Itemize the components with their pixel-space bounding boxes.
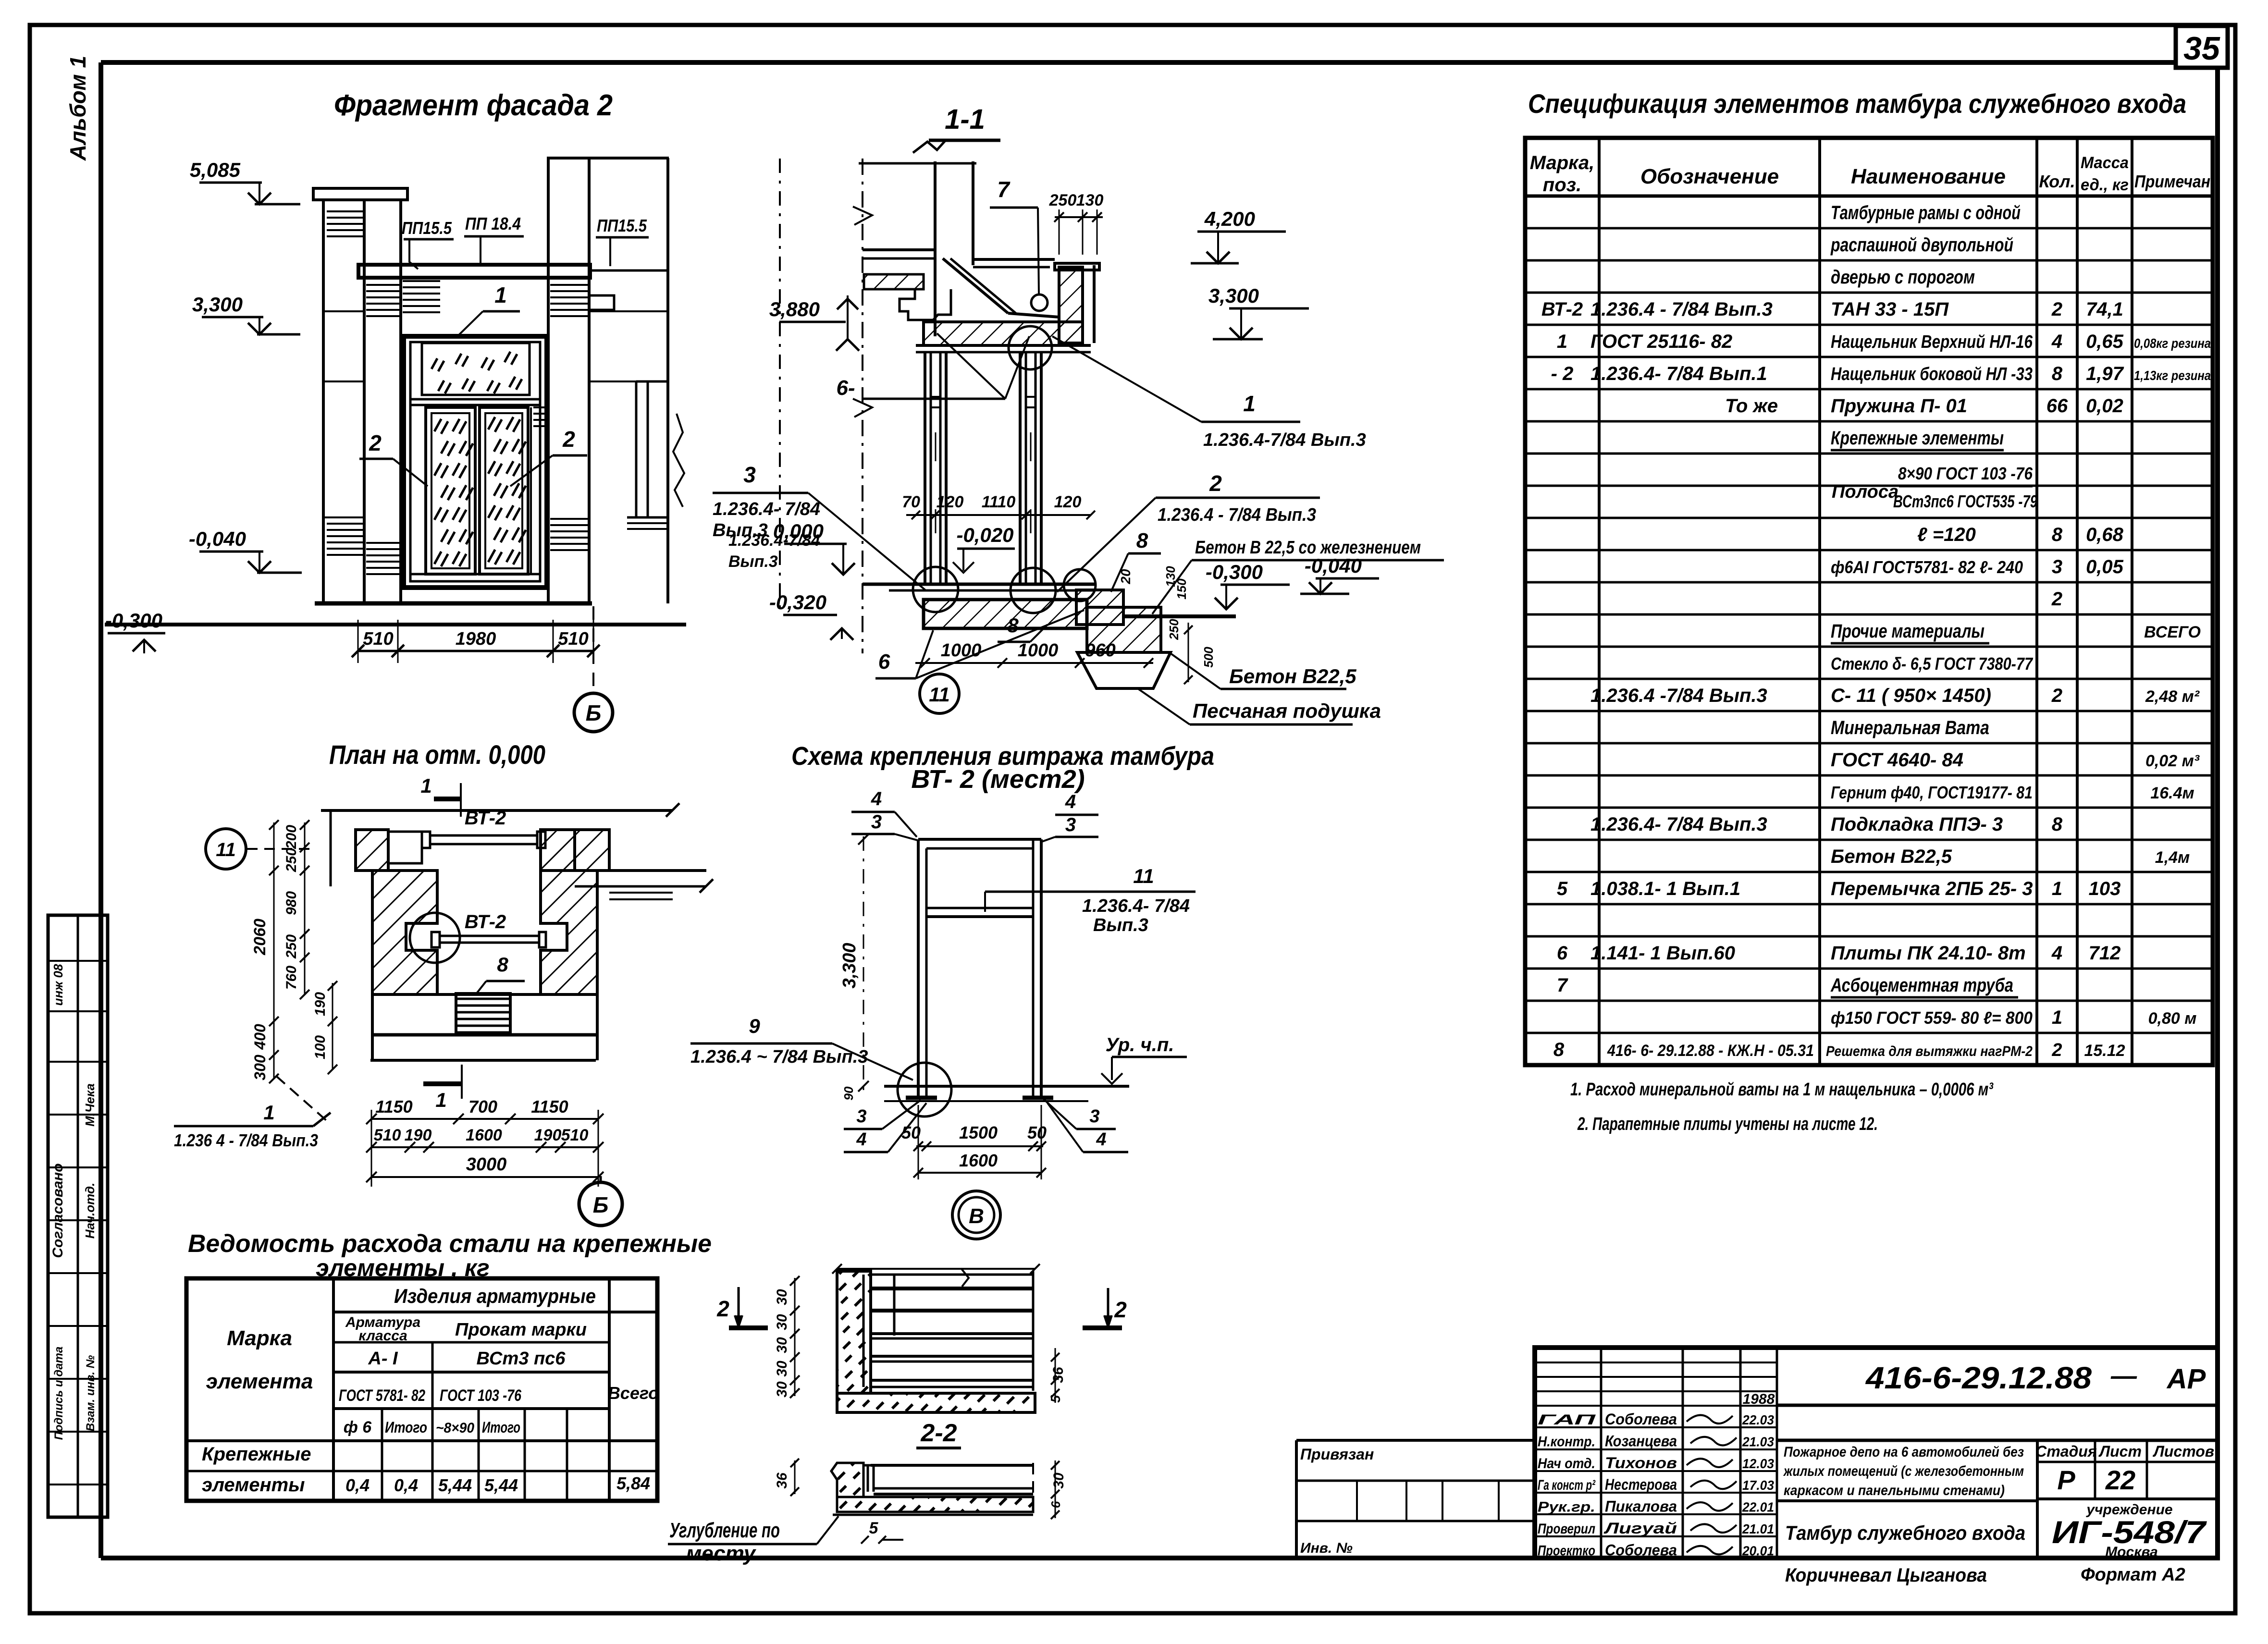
svg-text:8: 8 bbox=[497, 953, 508, 976]
svg-text:дверью с порогом: дверью с порогом bbox=[1831, 267, 1975, 288]
vitrage detail circle В bbox=[952, 1191, 1000, 1239]
svg-text:30: 30 bbox=[774, 1337, 790, 1353]
svg-text:Соболева: Соболева bbox=[1605, 1411, 1677, 1428]
plan title bbox=[329, 739, 545, 770]
level mark -0,300 bbox=[1206, 561, 1290, 609]
elevation mark 5,085 bbox=[190, 159, 300, 204]
svg-text:960: 960 bbox=[1085, 640, 1115, 661]
svg-text:3,880: 3,880 bbox=[769, 298, 820, 320]
svg-text:-0,020: -0,020 bbox=[956, 524, 1013, 546]
svg-text:4: 4 bbox=[1065, 791, 1076, 812]
svg-text:Масса: Масса bbox=[2081, 154, 2129, 172]
svg-text:- 2: - 2 bbox=[1551, 363, 1574, 384]
svg-text:30: 30 bbox=[774, 1381, 790, 1398]
section dimensions bbox=[902, 493, 1216, 684]
svg-text:Ведомость расхода стали на кре: Ведомость расхода стали на крепежные bbox=[188, 1230, 712, 1258]
facade dimension chain bbox=[352, 620, 600, 663]
svg-text:Нач.отд.: Нач.отд. bbox=[83, 1183, 97, 1239]
svg-text:1.236 4 - 7/84 Вып.3: 1.236 4 - 7/84 Вып.3 bbox=[174, 1130, 318, 1150]
svg-text:Листов: Листов bbox=[2153, 1443, 2214, 1460]
svg-text:Бетон В 22,5 со железнением: Бетон В 22,5 со железнением bbox=[1195, 538, 1421, 558]
section 1-1 title bbox=[929, 104, 1000, 140]
svg-text:30: 30 bbox=[774, 1314, 790, 1330]
svg-text:Вып.3: Вып.3 bbox=[713, 520, 768, 540]
svg-text:Альбом 1: Альбом 1 bbox=[65, 56, 90, 161]
spec table grid bbox=[1525, 138, 2213, 1065]
svg-text:8: 8 bbox=[2052, 814, 2063, 835]
svg-text:5,085: 5,085 bbox=[190, 159, 241, 181]
svg-text:500: 500 bbox=[1201, 647, 1216, 668]
svg-text:1: 1 bbox=[2052, 878, 2062, 899]
plan bottom dimensions bbox=[366, 1097, 604, 1187]
svg-text:ГОСТ 103 -76: ГОСТ 103 -76 bbox=[440, 1386, 522, 1405]
svg-text:ГОСТ 5781- 82: ГОСТ 5781- 82 bbox=[339, 1386, 425, 1405]
svg-text:0,80 м: 0,80 м bbox=[2148, 1009, 2197, 1028]
svg-text:Подпись и дата: Подпись и дата bbox=[52, 1347, 65, 1440]
svg-text:Взам. инв. №: Взам. инв. № bbox=[84, 1355, 97, 1431]
plan walls bbox=[321, 803, 713, 1060]
svg-text:4: 4 bbox=[871, 788, 882, 810]
detail lower dims bbox=[774, 1459, 1067, 1544]
svg-text:элемента: элемента bbox=[206, 1370, 313, 1393]
svg-text:1-1: 1-1 bbox=[945, 104, 985, 135]
svg-text:1: 1 bbox=[420, 774, 431, 797]
svg-text:ф 6: ф 6 bbox=[344, 1418, 372, 1436]
facade axis mark Б bbox=[574, 606, 613, 732]
svg-text:2: 2 bbox=[2051, 299, 2062, 320]
svg-text:0,68: 0,68 bbox=[2086, 524, 2124, 545]
svg-text:Бетон В22,5: Бетон В22,5 bbox=[1229, 665, 1356, 687]
svg-text:3: 3 bbox=[1089, 1106, 1099, 1127]
svg-text:Козанцева: Козанцева bbox=[1605, 1432, 1677, 1449]
svg-text:1000: 1000 bbox=[1018, 640, 1059, 661]
svg-text:2: 2 bbox=[2051, 685, 2062, 706]
svg-text:ПП15.5: ПП15.5 bbox=[402, 218, 452, 238]
svg-text:3: 3 bbox=[856, 1106, 866, 1127]
svg-text:8: 8 bbox=[1553, 1039, 1565, 1060]
svg-text:250: 250 bbox=[283, 848, 299, 872]
svg-text:2. Парапетные плиты учтены: 2. Парапетные плиты учтены на листе 12. bbox=[1577, 1114, 1878, 1134]
steel table title bbox=[188, 1230, 712, 1281]
svg-text:ВТ-2: ВТ-2 bbox=[1541, 299, 1583, 320]
section marks 2 bbox=[716, 1287, 1127, 1328]
detail 2-2 label bbox=[916, 1419, 961, 1448]
svg-text:8: 8 bbox=[2052, 363, 2063, 384]
svg-text:2: 2 bbox=[562, 427, 575, 452]
svg-text:5: 5 bbox=[1557, 878, 1568, 899]
title block signatures bbox=[1538, 1361, 2206, 1558]
svg-text:Б: Б bbox=[586, 700, 602, 725]
svg-text:190: 190 bbox=[534, 1126, 562, 1144]
svg-text:Пружина П- 01: Пружина П- 01 bbox=[1831, 395, 1967, 417]
plan axis circle Б bbox=[579, 1176, 622, 1226]
svg-text:0,65: 0,65 bbox=[2086, 331, 2124, 352]
elevation mark 3,300 bbox=[192, 293, 300, 334]
svg-text:То же: То же bbox=[1725, 395, 1778, 417]
svg-text:—: — bbox=[2110, 1362, 2137, 1390]
svg-text:3,300: 3,300 bbox=[192, 293, 243, 316]
level mark 3,300 right bbox=[1208, 284, 1309, 339]
vitrage frame BT-2 bbox=[884, 839, 1129, 1101]
svg-text:1150: 1150 bbox=[375, 1097, 412, 1116]
level mark 3,880 bbox=[769, 295, 859, 351]
svg-text:Плиты ПК 24.10- 8т: Плиты ПК 24.10- 8т bbox=[1831, 943, 2026, 964]
svg-text:М.Чека: М.Чека bbox=[83, 1083, 97, 1127]
svg-text:9: 9 bbox=[749, 1015, 760, 1037]
svg-text:8: 8 bbox=[2052, 524, 2063, 545]
svg-text:250: 250 bbox=[1167, 619, 1181, 640]
svg-text:Асбоцементная труба: Асбоцементная труба bbox=[1830, 975, 2013, 996]
svg-text:ГОСТ 25116- 82: ГОСТ 25116- 82 bbox=[1590, 331, 1732, 352]
svg-text:120: 120 bbox=[1054, 493, 1082, 511]
svg-text:ВТ- 2 (мест2): ВТ- 2 (мест2) bbox=[911, 765, 1085, 794]
svg-text:1500: 1500 bbox=[959, 1123, 998, 1142]
svg-text:Б: Б bbox=[593, 1192, 609, 1217]
svg-text:Нащельник Верхний НЛ-16: Нащельник Верхний НЛ-16 bbox=[1831, 332, 2033, 352]
svg-text:1: 1 bbox=[2052, 1007, 2062, 1028]
svg-text:-0,040: -0,040 bbox=[1305, 554, 1362, 577]
svg-text:Итого: Итого bbox=[482, 1419, 520, 1436]
svg-text:6-: 6- bbox=[836, 376, 855, 400]
level mark -0,320 bbox=[769, 591, 853, 640]
svg-text:Изделия арматурные: Изделия арматурные bbox=[394, 1285, 596, 1307]
svg-text:1.236.4 -7/84 Вып.3: 1.236.4 -7/84 Вып.3 bbox=[1590, 685, 1767, 706]
section wall and canopy bbox=[853, 140, 1099, 653]
svg-text:74,1: 74,1 bbox=[2086, 299, 2123, 320]
svg-text:Всего: Всего bbox=[608, 1383, 659, 1403]
svg-text:АР: АР bbox=[2166, 1363, 2206, 1395]
svg-text:1110: 1110 bbox=[982, 493, 1016, 511]
svg-text:ℓ =120: ℓ =120 bbox=[1917, 524, 1976, 545]
elevation mark -0,040 bbox=[189, 528, 302, 573]
svg-text:21.03: 21.03 bbox=[1742, 1434, 1774, 1449]
glass hatching bbox=[431, 352, 526, 566]
svg-text:Марка: Марка bbox=[227, 1326, 292, 1350]
svg-text:Гернит ф40, ГОСТ19177- 81: Гернит ф40, ГОСТ19177- 81 bbox=[1831, 783, 2033, 802]
svg-text:8: 8 bbox=[1007, 614, 1019, 637]
svg-text:2: 2 bbox=[1209, 471, 1222, 496]
svg-text:Тамбурные рамы с одной: Тамбурные рамы с одной bbox=[1831, 202, 2021, 223]
svg-text:7: 7 bbox=[1557, 975, 1568, 996]
tambour frame jambs bbox=[925, 352, 1041, 584]
title block left strip bbox=[1296, 1440, 1535, 1558]
svg-text:3: 3 bbox=[743, 462, 756, 487]
svg-text:760: 760 bbox=[283, 966, 299, 990]
facade callout labels bbox=[359, 214, 820, 571]
svg-text:ГОСТ 4640- 84: ГОСТ 4640- 84 bbox=[1831, 749, 1963, 771]
svg-text:5,84: 5,84 bbox=[616, 1473, 650, 1493]
svg-text:Марка,: Марка, bbox=[1530, 152, 1595, 173]
svg-text:712: 712 bbox=[2089, 943, 2121, 964]
svg-text:Проектко: Проектко bbox=[1538, 1543, 1595, 1558]
svg-text:-0,320: -0,320 bbox=[769, 591, 826, 613]
svg-text:1980: 1980 bbox=[456, 629, 496, 649]
level mark 4,200 bbox=[1191, 208, 1286, 263]
svg-text:Пожарное депо на 6 автомобилей: Пожарное депо на 6 автомобилей без bbox=[1784, 1444, 2024, 1460]
svg-text:Прокат марки: Прокат марки bbox=[455, 1320, 587, 1340]
svg-text:22.01: 22.01 bbox=[1742, 1500, 1774, 1515]
svg-text:инж 08: инж 08 bbox=[51, 964, 65, 1006]
svg-text:Согласовано: Согласовано bbox=[50, 1163, 66, 1258]
svg-text:3,300: 3,300 bbox=[1208, 284, 1259, 307]
svg-text:1. Расход минеральной ваты: 1. Расход минеральной ваты на 1 м нащель… bbox=[1570, 1080, 1994, 1100]
svg-text:7: 7 bbox=[997, 177, 1011, 202]
page number box bbox=[2176, 26, 2228, 68]
svg-text:2,48 м²: 2,48 м² bbox=[2145, 687, 2200, 706]
svg-text:1.236.4- 7/84: 1.236.4- 7/84 bbox=[713, 499, 820, 519]
svg-text:4: 4 bbox=[1096, 1129, 1106, 1150]
svg-text:1988: 1988 bbox=[1743, 1391, 1775, 1407]
svg-text:1.236.4-7/84 Вып.3: 1.236.4-7/84 Вып.3 bbox=[1203, 430, 1366, 450]
svg-text:6: 6 bbox=[1048, 1501, 1063, 1508]
svg-text:100: 100 bbox=[312, 1035, 328, 1059]
svg-text:2: 2 bbox=[1114, 1297, 1127, 1322]
left margin stamp column bbox=[48, 915, 108, 1517]
svg-text:2: 2 bbox=[2051, 589, 2062, 610]
svg-text:-0,300: -0,300 bbox=[105, 609, 162, 632]
svg-text:50: 50 bbox=[1027, 1123, 1047, 1142]
svg-text:1: 1 bbox=[263, 1101, 274, 1124]
svg-text:6: 6 bbox=[1557, 943, 1568, 964]
lintel slab bbox=[916, 322, 1091, 352]
svg-text:11: 11 bbox=[216, 839, 236, 860]
svg-text:Обозначение: Обозначение bbox=[1640, 165, 1779, 188]
svg-text:1.236.4 - 7/84 Вып.3: 1.236.4 - 7/84 Вып.3 bbox=[1158, 505, 1316, 525]
label Углубление по месту bbox=[668, 1516, 838, 1565]
svg-text:Решетка для вытяжки нагРМ-2: Решетка для вытяжки нагРМ-2 bbox=[1826, 1043, 2033, 1059]
title block grid bbox=[1535, 1348, 2218, 1558]
svg-text:0,4: 0,4 bbox=[394, 1475, 418, 1495]
svg-text:130: 130 bbox=[1076, 191, 1104, 209]
svg-text:Соболева: Соболева bbox=[1605, 1541, 1677, 1558]
title block texts bbox=[1783, 1443, 2214, 1560]
section floor and foundation bbox=[863, 584, 1236, 688]
svg-text:Кол.: Кол. bbox=[2039, 172, 2075, 191]
svg-text:Стекло δ- 6,5 ГОСТ 7380-77: Стекло δ- 6,5 ГОСТ 7380-77 bbox=[1831, 654, 2034, 674]
svg-text:20: 20 bbox=[1118, 569, 1133, 585]
svg-text:17.03: 17.03 bbox=[1742, 1478, 1774, 1493]
svg-text:Ур. ч.п.: Ур. ч.п. bbox=[1106, 1034, 1174, 1055]
svg-text:Москва: Москва bbox=[2105, 1544, 2158, 1560]
svg-text:1.038.1- 1 Вып.1: 1.038.1- 1 Вып.1 bbox=[1590, 878, 1740, 899]
svg-text:В: В bbox=[969, 1204, 984, 1228]
svg-text:каркасом и панельными стенами): каркасом и панельными стенами) bbox=[1784, 1483, 2005, 1498]
svg-text:11: 11 bbox=[1133, 865, 1154, 887]
svg-text:Пикалова: Пикалова bbox=[1605, 1498, 1677, 1515]
svg-text:2: 2 bbox=[2051, 1040, 2062, 1060]
svg-text:1.236.4 - 7/84 Вып.3: 1.236.4 - 7/84 Вып.3 bbox=[1590, 299, 1773, 320]
svg-text:11: 11 bbox=[929, 683, 950, 706]
svg-text:Рук.гр.: Рук.гр. bbox=[1538, 1499, 1595, 1515]
facade walls bbox=[313, 158, 684, 603]
svg-text:Инв. №: Инв. № bbox=[1300, 1540, 1353, 1556]
svg-text:элементы: элементы bbox=[202, 1474, 305, 1496]
svg-text:ф6АI ГОСТ5781- 82 ℓ- 240: ф6АI ГОСТ5781- 82 ℓ- 240 bbox=[1831, 557, 2023, 577]
steel table grid bbox=[186, 1278, 657, 1501]
svg-text:-0,040: -0,040 bbox=[189, 528, 246, 550]
svg-text:103: 103 bbox=[2089, 878, 2121, 899]
facade title bbox=[334, 89, 613, 122]
svg-text:3,300: 3,300 bbox=[839, 943, 860, 988]
svg-text:1.236.4- 7/84 Вып.1: 1.236.4- 7/84 Вып.1 bbox=[1590, 363, 1767, 384]
svg-text:1: 1 bbox=[494, 282, 507, 307]
svg-text:510: 510 bbox=[374, 1126, 401, 1144]
svg-text:15.12: 15.12 bbox=[2084, 1042, 2125, 1060]
svg-text:3: 3 bbox=[2052, 556, 2062, 577]
svg-text:36: 36 bbox=[774, 1472, 790, 1489]
level mark 0,000 bbox=[773, 520, 855, 575]
svg-text:4,200: 4,200 bbox=[1204, 208, 1255, 230]
svg-text:Примечан: Примечан bbox=[2134, 172, 2210, 191]
svg-text:12.03: 12.03 bbox=[1742, 1456, 1774, 1471]
svg-text:150: 150 bbox=[1174, 578, 1189, 600]
svg-text:Привязан: Привязан bbox=[1300, 1446, 1374, 1463]
svg-text:Перемычка 2ПБ 25- 3: Перемычка 2ПБ 25- 3 bbox=[1831, 878, 2033, 899]
detail 2-2 dims bbox=[774, 1276, 1066, 1403]
svg-text:190: 190 bbox=[312, 992, 328, 1016]
svg-text:1: 1 bbox=[1243, 391, 1256, 416]
svg-text:класса: класса bbox=[358, 1328, 407, 1344]
svg-text:2-2: 2-2 bbox=[920, 1419, 957, 1447]
level mark -0,020 bbox=[953, 524, 1015, 573]
facade door with transom bbox=[404, 336, 547, 588]
svg-text:300: 300 bbox=[251, 1055, 269, 1080]
svg-text:2: 2 bbox=[716, 1296, 729, 1321]
svg-text:416-6-29.12.88: 416-6-29.12.88 bbox=[1865, 1361, 2092, 1395]
svg-text:Песчаная подушка: Песчаная подушка bbox=[1193, 699, 1381, 722]
svg-text:4: 4 bbox=[856, 1129, 866, 1150]
svg-text:8: 8 bbox=[1136, 529, 1148, 552]
svg-text:20.01: 20.01 bbox=[1742, 1543, 1774, 1558]
svg-text:Тамбур служебного входа: Тамбур служебного входа bbox=[1785, 1521, 2025, 1544]
spec table notes bbox=[1570, 1080, 1994, 1134]
svg-text:Га конст р²: Га конст р² bbox=[1538, 1477, 1596, 1493]
handwritten notes below title block bbox=[1785, 1565, 2185, 1586]
vitrage title bbox=[791, 742, 1214, 794]
svg-text:ед., кг: ед., кг bbox=[2081, 176, 2129, 194]
svg-text:5,44: 5,44 bbox=[438, 1475, 472, 1495]
vitrage dimensions bbox=[839, 834, 1047, 1179]
svg-text:ф150 ГОСТ 559- 80 ℓ= 800: ф150 ГОСТ 559- 80 ℓ= 800 bbox=[1831, 1008, 2033, 1028]
elevation mark -0,300 bbox=[105, 609, 165, 653]
svg-text:250: 250 bbox=[1049, 191, 1077, 209]
svg-text:3: 3 bbox=[1065, 814, 1076, 835]
svg-text:22.03: 22.03 bbox=[1742, 1412, 1774, 1427]
svg-text:Нач отд.: Нач отд. bbox=[1538, 1456, 1595, 1472]
svg-text:0,000: 0,000 bbox=[773, 520, 824, 542]
svg-text:-0,300: -0,300 bbox=[1206, 561, 1263, 583]
svg-text:А- I: А- I bbox=[368, 1349, 398, 1369]
svg-text:Стадия: Стадия bbox=[2035, 1443, 2097, 1460]
section axis circle 11 bbox=[920, 674, 959, 713]
svg-text:Крепежные элементы: Крепежные элементы bbox=[1831, 428, 2004, 449]
svg-text:1: 1 bbox=[1557, 331, 1567, 352]
facade ground line bbox=[105, 603, 686, 625]
svg-text:1.236.4- 7/84: 1.236.4- 7/84 bbox=[1082, 896, 1190, 916]
svg-text:Итого: Итого bbox=[385, 1419, 427, 1436]
section callouts bbox=[713, 333, 1444, 724]
svg-text:30: 30 bbox=[774, 1289, 790, 1305]
svg-text:распашной двупольной: распашной двупольной bbox=[1830, 234, 2013, 256]
svg-text:ГАП: ГАП bbox=[1538, 1412, 1597, 1428]
svg-text:980: 980 bbox=[283, 891, 299, 915]
svg-text:Коричневал Цыганова: Коричневал Цыганова bbox=[1785, 1565, 1987, 1586]
svg-text:Минеральная Вата: Минеральная Вата bbox=[1831, 717, 1989, 738]
svg-text:Нестерова: Нестерова bbox=[1605, 1476, 1677, 1493]
svg-text:Проверил: Проверил bbox=[1538, 1521, 1595, 1537]
plan marks bbox=[206, 774, 525, 1111]
masonry shading ticks bbox=[327, 211, 588, 574]
svg-text:0,05: 0,05 bbox=[2086, 556, 2124, 577]
svg-text:3000: 3000 bbox=[466, 1154, 507, 1175]
svg-text:0,08кг резина: 0,08кг резина bbox=[2134, 336, 2211, 351]
svg-text:21.01: 21.01 bbox=[1742, 1521, 1774, 1536]
level mark -0,040 right bbox=[1300, 554, 1379, 594]
svg-text:190: 190 bbox=[405, 1126, 432, 1144]
svg-text:Прочие материалы: Прочие материалы bbox=[1831, 621, 1984, 642]
svg-text:Н.контр.: Н.контр. bbox=[1538, 1434, 1595, 1449]
svg-text:70: 70 bbox=[902, 493, 920, 511]
svg-text:1600: 1600 bbox=[959, 1151, 998, 1170]
svg-text:жилых помещений (с железобетон: жилых помещений (с железобетонным bbox=[1783, 1463, 2024, 1479]
svg-text:6: 6 bbox=[878, 650, 890, 674]
svg-text:3: 3 bbox=[871, 811, 882, 833]
svg-text:16.4м: 16.4м bbox=[2150, 784, 2194, 802]
svg-text:1600: 1600 bbox=[466, 1126, 502, 1144]
svg-text:Р: Р bbox=[2057, 1465, 2075, 1495]
svg-text:1150: 1150 bbox=[531, 1097, 568, 1116]
vitrage callouts bbox=[690, 788, 1196, 1152]
svg-text:90: 90 bbox=[841, 1086, 856, 1100]
svg-text:200: 200 bbox=[283, 825, 299, 849]
svg-text:1: 1 bbox=[435, 1089, 446, 1111]
svg-text:1,13кг резина: 1,13кг резина bbox=[2134, 368, 2211, 383]
svg-text:2060: 2060 bbox=[251, 919, 269, 956]
svg-text:ПП15.5: ПП15.5 bbox=[597, 216, 647, 235]
svg-text:Лигуай: Лигуай bbox=[1603, 1520, 1677, 1537]
svg-text:Крепежные: Крепежные bbox=[202, 1444, 311, 1465]
svg-text:Формат А2: Формат А2 bbox=[2081, 1565, 2185, 1585]
svg-text:4: 4 bbox=[2051, 331, 2062, 352]
svg-text:Нащельник боковой НЛ -33: Нащельник боковой НЛ -33 bbox=[1831, 364, 2033, 384]
svg-text:Полоса: Полоса bbox=[1832, 482, 1898, 502]
svg-text:5,44: 5,44 bbox=[484, 1475, 518, 1495]
svg-text:1,4м: 1,4м bbox=[2155, 848, 2190, 867]
svg-text:1000: 1000 bbox=[941, 640, 982, 661]
svg-text:Наименование: Наименование bbox=[1851, 165, 2006, 188]
detail lower section bbox=[831, 1463, 1033, 1515]
svg-text:План на отм. 0,000: План на отм. 0,000 bbox=[329, 739, 545, 770]
svg-text:Фрагмент фасада 2: Фрагмент фасада 2 bbox=[334, 89, 613, 122]
svg-text:1.141- 1 Вып.60: 1.141- 1 Вып.60 bbox=[1590, 943, 1735, 964]
svg-text:Спецификация элементов тамбура: Спецификация элементов тамбура служебног… bbox=[1528, 88, 2186, 119]
svg-text:Углубление по: Углубление по bbox=[669, 1519, 780, 1542]
svg-text:ВСт3 пс6: ВСт3 пс6 bbox=[477, 1349, 566, 1369]
svg-text:поз.: поз. bbox=[1543, 174, 1581, 196]
facade right axis bbox=[779, 159, 781, 610]
steel table text bbox=[202, 1285, 659, 1496]
plan leader 1 bbox=[174, 1076, 331, 1150]
svg-text:36: 36 bbox=[1050, 1367, 1066, 1383]
detail circles bbox=[913, 326, 1096, 613]
svg-text:С- 11 ( 950× 1450): С- 11 ( 950× 1450) bbox=[1831, 685, 1991, 706]
svg-text:Вып.3: Вып.3 bbox=[728, 552, 778, 571]
svg-text:4: 4 bbox=[2051, 943, 2062, 964]
svg-text:30: 30 bbox=[774, 1361, 790, 1377]
svg-text:ВТ-2: ВТ-2 bbox=[465, 808, 506, 829]
svg-text:400: 400 bbox=[251, 1024, 269, 1050]
plan left dimensions bbox=[251, 820, 337, 1083]
